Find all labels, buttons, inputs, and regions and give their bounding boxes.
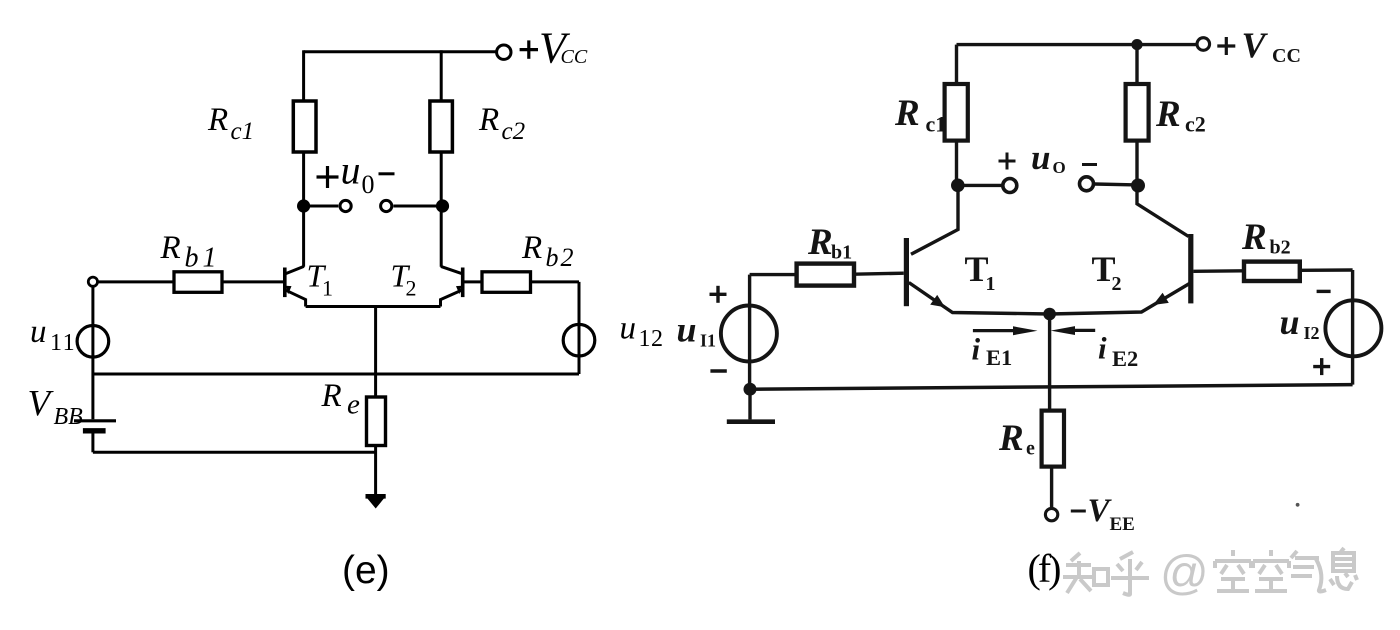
svg-text:BB: BB	[54, 404, 84, 430]
svg-text:O: O	[1053, 158, 1066, 177]
svg-text:1: 1	[986, 273, 996, 295]
svg-text:(e): (e)	[342, 549, 390, 592]
svg-text:u: u	[341, 148, 361, 193]
svg-text:R: R	[521, 230, 542, 266]
svg-text:R: R	[478, 102, 499, 138]
svg-text:CC: CC	[561, 46, 588, 68]
svg-text:b1: b1	[185, 243, 221, 274]
svg-text:I1: I1	[700, 331, 716, 351]
svg-text:12: 12	[639, 326, 664, 352]
svg-text:11: 11	[50, 330, 76, 356]
svg-text:R: R	[207, 102, 228, 138]
svg-text:R: R	[998, 418, 1024, 459]
svg-text:c2: c2	[502, 118, 526, 145]
svg-text:2: 2	[1112, 273, 1122, 295]
svg-text:0: 0	[362, 170, 375, 199]
svg-text:b1: b1	[831, 242, 852, 264]
svg-text:u: u	[620, 311, 637, 347]
svg-text:(f): (f)	[1028, 546, 1061, 591]
svg-text:E2: E2	[1112, 346, 1138, 371]
svg-text:u: u	[30, 314, 47, 350]
svg-text:e: e	[347, 389, 360, 421]
svg-text:1: 1	[322, 276, 333, 301]
svg-text:EE: EE	[1110, 514, 1135, 535]
svg-text:u: u	[1031, 138, 1050, 177]
svg-text:c2: c2	[1185, 112, 1206, 137]
svg-text:e: e	[1026, 438, 1035, 460]
svg-text:c1: c1	[926, 112, 947, 137]
svg-text:R: R	[894, 93, 920, 134]
svg-text:R: R	[1155, 94, 1181, 135]
svg-text:CC: CC	[1272, 45, 1301, 67]
svg-text:R: R	[321, 378, 342, 414]
svg-text:i: i	[972, 332, 981, 367]
svg-text:u: u	[1280, 302, 1300, 342]
svg-text:b2: b2	[546, 243, 576, 272]
svg-text:V: V	[1242, 25, 1269, 65]
svg-text:b2: b2	[1270, 237, 1291, 259]
svg-text:I2: I2	[1304, 323, 1320, 343]
svg-text:E1: E1	[986, 345, 1012, 370]
svg-text:u: u	[677, 310, 697, 350]
svg-text:R: R	[807, 222, 833, 263]
svg-text:i: i	[1098, 331, 1107, 366]
svg-text:R: R	[160, 230, 181, 266]
svg-text:@: @	[1160, 547, 1209, 600]
svg-text:R: R	[1241, 217, 1267, 258]
svg-text:c1: c1	[231, 118, 255, 145]
svg-text:2: 2	[406, 276, 417, 301]
